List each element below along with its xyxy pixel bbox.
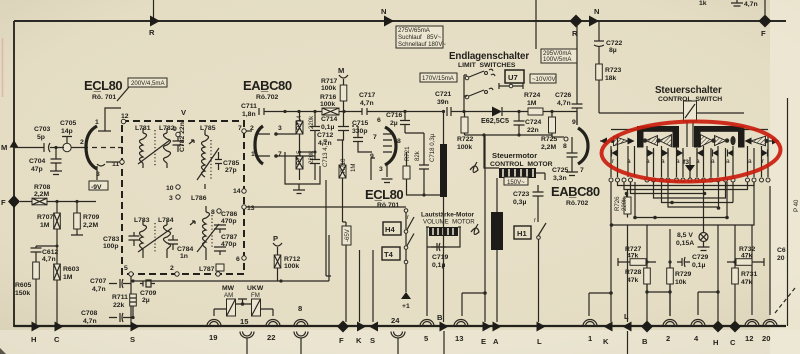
wire E column bbox=[484, 135, 486, 322]
resistor R728 bbox=[644, 268, 651, 284]
tube cathode lead bbox=[97, 164, 105, 180]
svg-text:C724: C724 bbox=[525, 119, 541, 126]
wire R707 to C612 branch bbox=[36, 229, 57, 264]
wire K column bbox=[359, 250, 361, 322]
svg-text:47p: 47p bbox=[31, 166, 43, 173]
svg-text:C726: C726 bbox=[555, 92, 571, 99]
svg-text:N: N bbox=[594, 7, 599, 16]
terminal 20 bbox=[763, 320, 777, 327]
wire bottom chassis bus bbox=[14, 325, 786, 327]
connector arrow small bbox=[189, 140, 194, 144]
switch arrow far ends bbox=[600, 138, 607, 145]
svg-text:C729: C729 bbox=[692, 254, 708, 261]
tube ECL80 pentode envelope bbox=[385, 127, 396, 165]
wire L column bbox=[538, 239, 540, 322]
svg-text:R709: R709 bbox=[83, 214, 99, 221]
svg-text:5: 5 bbox=[124, 265, 128, 272]
svg-text:2: 2 bbox=[80, 139, 84, 146]
terminal L1 bbox=[537, 322, 546, 332]
svg-text:47k: 47k bbox=[627, 277, 639, 284]
capacitor C785 bbox=[215, 152, 222, 170]
svg-text:FM: FM bbox=[251, 292, 260, 299]
node M terminal left edge bbox=[10, 140, 19, 148]
switch limit lower bbox=[465, 95, 469, 99]
svg-text:7: 7 bbox=[278, 151, 282, 158]
svg-text:2: 2 bbox=[170, 265, 174, 272]
svg-text:8µ: 8µ bbox=[609, 47, 617, 54]
svg-text:R711: R711 bbox=[112, 294, 128, 301]
wire top supply bus bbox=[14, 20, 786, 22]
wire switch common with T-bar bbox=[236, 299, 252, 304]
svg-text:1: 1 bbox=[251, 151, 255, 158]
svg-text:330p: 330p bbox=[352, 128, 368, 135]
svg-text:Rö.702: Rö.702 bbox=[256, 94, 279, 101]
svg-text:18k: 18k bbox=[605, 75, 617, 82]
switch cone far right bbox=[751, 136, 766, 146]
svg-text:LIMIT SWITCHES: LIMIT SWITCHES bbox=[458, 62, 516, 69]
box U7 bbox=[505, 70, 524, 83]
svg-text:R724: R724 bbox=[524, 92, 540, 99]
svg-text:R714: R714 bbox=[296, 115, 303, 130]
wire drop to 295V box bbox=[535, 0, 537, 49]
terminal K2 bbox=[604, 322, 613, 332]
svg-text:7: 7 bbox=[373, 134, 377, 141]
node R arrow top-left bbox=[150, 16, 160, 27]
box 295V/0mA 100V/5mA bbox=[541, 49, 577, 63]
core dotted bbox=[154, 130, 156, 166]
capacitor C703 bbox=[44, 143, 58, 152]
svg-text:1n: 1n bbox=[180, 253, 188, 260]
wire 4 column bbox=[698, 292, 718, 315]
svg-text:C782 22n: C782 22n bbox=[179, 122, 186, 152]
node +1 arrow bbox=[401, 292, 411, 299]
tuning arrow 2 bbox=[138, 228, 172, 252]
svg-text:13: 13 bbox=[455, 334, 463, 343]
capacitor C704 bbox=[50, 148, 62, 175]
svg-text:R731: R731 bbox=[741, 271, 757, 278]
svg-text:3: 3 bbox=[379, 166, 383, 173]
svg-text:S: S bbox=[130, 335, 135, 344]
svg-text:20: 20 bbox=[777, 255, 785, 262]
box -9V bbox=[89, 181, 108, 190]
svg-text:P 40: P 40 bbox=[793, 199, 800, 212]
svg-text:Steuermotor: Steuermotor bbox=[492, 151, 537, 160]
svg-text:R726: R726 bbox=[614, 196, 621, 211]
svg-text:a: a bbox=[711, 158, 715, 165]
svg-text:R728: R728 bbox=[625, 269, 641, 276]
svg-text:B: B bbox=[437, 313, 443, 322]
wire B2 column bbox=[646, 225, 648, 321]
terminal C2 bbox=[729, 321, 741, 333]
svg-text:Schnellauf 180V~: Schnellauf 180V~ bbox=[398, 41, 446, 48]
wire drop to R arrow bbox=[153, 0, 155, 21]
capacitor C709 bbox=[140, 280, 155, 287]
svg-text:1M: 1M bbox=[63, 274, 73, 281]
wire switch chain to +1 bbox=[405, 249, 407, 292]
wire C column bbox=[734, 225, 736, 321]
svg-text:M: M bbox=[1, 143, 7, 152]
svg-text:200V/4,5mA: 200V/4,5mA bbox=[131, 80, 165, 87]
switch cone left pair bbox=[646, 136, 658, 146]
tube diode plates bbox=[258, 134, 270, 156]
switch limit upper bbox=[465, 76, 469, 80]
box 200V/4,5mA bbox=[128, 78, 167, 87]
terminal H bbox=[32, 322, 41, 332]
svg-text:4,7n: 4,7n bbox=[42, 256, 56, 263]
connector symbol bbox=[190, 221, 195, 225]
svg-text:8: 8 bbox=[298, 304, 302, 313]
resistor R715 bbox=[296, 156, 303, 169]
terminal 12 bbox=[745, 320, 759, 327]
node pin 5 bottom bbox=[129, 272, 133, 276]
capacitor 4,7n top edge bbox=[731, 0, 743, 6]
svg-text:EAB̲C80: EAB̲C80 bbox=[243, 78, 292, 93]
svg-text:-65V: -65V bbox=[344, 228, 351, 242]
svg-text:10: 10 bbox=[166, 185, 174, 192]
svg-text:L787: L787 bbox=[199, 266, 215, 273]
svg-text:22: 22 bbox=[267, 333, 275, 342]
node pin 13 bbox=[242, 205, 246, 209]
tuning arrow L781/L782 bbox=[138, 140, 170, 164]
svg-text:C709: C709 bbox=[140, 290, 156, 297]
switch contact lower bbox=[406, 233, 414, 248]
svg-text:R708: R708 bbox=[34, 184, 50, 191]
svg-text:4,7n: 4,7n bbox=[360, 100, 374, 107]
corner mark bottom left bbox=[0, 348, 6, 354]
tube EABC80 right envelope bbox=[578, 128, 588, 164]
svg-text:R718: R718 bbox=[340, 158, 347, 173]
switch bar left bbox=[637, 126, 679, 132]
svg-text:4,7n: 4,7n bbox=[557, 100, 571, 107]
svg-text:4,7n: 4,7n bbox=[92, 286, 106, 293]
resistor R603 bbox=[54, 264, 61, 280]
inductor L787 bottom coil bbox=[203, 206, 210, 260]
svg-text:UKW: UKW bbox=[247, 285, 264, 292]
svg-text:R729: R729 bbox=[675, 271, 691, 278]
svg-text:Rö. 701: Rö. 701 bbox=[92, 94, 116, 101]
tube ECL80 triode envelope bbox=[86, 126, 97, 169]
svg-text:H1: H1 bbox=[517, 229, 527, 238]
svg-text:12: 12 bbox=[121, 113, 129, 120]
box ~10V/0V bbox=[530, 74, 556, 83]
svg-text:R723: R723 bbox=[605, 67, 621, 74]
svg-text:a: a bbox=[676, 158, 680, 165]
resistor R726 bbox=[624, 197, 631, 214]
wire R605 to H terminal bbox=[35, 279, 37, 326]
svg-text:C786: C786 bbox=[221, 211, 237, 218]
resistor R709 bbox=[76, 202, 78, 214]
node pin 7 on box edge bbox=[242, 129, 246, 133]
svg-text:EAB̲C80: EAB̲C80 bbox=[551, 184, 600, 199]
svg-text:C722: C722 bbox=[606, 40, 622, 47]
svg-text:AM: AM bbox=[224, 292, 233, 299]
terminal 19 bbox=[207, 320, 221, 327]
capacitor C782 bbox=[173, 137, 184, 152]
svg-text:Rö.702: Rö.702 bbox=[566, 200, 589, 207]
svg-text:F: F bbox=[1, 198, 6, 207]
resistor R723 bbox=[596, 64, 603, 80]
svg-text:2,2M: 2,2M bbox=[34, 191, 49, 198]
svg-text:8,5 V: 8,5 V bbox=[677, 232, 693, 239]
svg-text:8: 8 bbox=[563, 143, 567, 150]
wire switch left column bbox=[464, 75, 467, 112]
wire L2 column bbox=[627, 194, 628, 323]
node F terminal left edge bbox=[8, 195, 20, 208]
svg-text:0,3µ: 0,3µ bbox=[513, 199, 526, 206]
svg-text:C6: C6 bbox=[777, 247, 786, 254]
svg-text:B: B bbox=[642, 337, 648, 346]
terminal B2 bbox=[641, 321, 653, 333]
svg-text:+1: +1 bbox=[402, 303, 410, 310]
switch actuator box bbox=[684, 101, 697, 121]
svg-text:C785: C785 bbox=[223, 160, 239, 167]
svg-text:1M: 1M bbox=[350, 164, 357, 172]
svg-text:6: 6 bbox=[236, 256, 240, 263]
terminal 13 bbox=[454, 320, 468, 327]
svg-text:a: a bbox=[726, 158, 730, 165]
wire B-bar column bbox=[443, 197, 445, 200]
wire R603 to C terminal bbox=[56, 280, 58, 326]
wire 2 column bbox=[669, 229, 671, 316]
svg-text:3,3n: 3,3n bbox=[553, 175, 567, 182]
node pin 11 bbox=[120, 160, 124, 164]
capacitor C612 bbox=[31, 246, 42, 262]
svg-text:275V/65mA: 275V/65mA bbox=[398, 27, 431, 34]
svg-text:T4: T4 bbox=[384, 250, 394, 259]
wire nested bracket 6 bbox=[668, 182, 719, 207]
svg-text:10k: 10k bbox=[675, 279, 687, 286]
motor volume body bbox=[429, 227, 458, 236]
svg-text:1,8n: 1,8n bbox=[242, 111, 256, 118]
wire volume motor loop bbox=[427, 227, 460, 316]
terminal 1 bbox=[583, 320, 597, 327]
svg-text:R716: R716 bbox=[320, 94, 336, 101]
artifact pink scan line bbox=[2, 38, 4, 97]
resistor R725 bbox=[549, 117, 556, 133]
node pin 9 bbox=[176, 132, 180, 136]
svg-text:2: 2 bbox=[666, 334, 670, 343]
svg-text:Endlagenschalter: Endlagenschalter bbox=[449, 51, 529, 62]
svg-text:S: S bbox=[370, 336, 375, 345]
svg-text:39n: 39n bbox=[437, 99, 449, 106]
svg-text:a: a bbox=[646, 158, 650, 165]
svg-text:15: 15 bbox=[240, 317, 249, 326]
wire pin3 down and cap bbox=[382, 165, 393, 183]
wire bottom rail y135 bbox=[465, 135, 553, 137]
svg-text:2µ: 2µ bbox=[142, 297, 150, 304]
svg-text:13: 13 bbox=[247, 205, 255, 212]
terminal E bbox=[483, 322, 492, 332]
svg-text:0,15A: 0,15A bbox=[676, 240, 694, 247]
resistor R729 bbox=[667, 268, 674, 284]
switch terminal circles row bbox=[609, 178, 770, 182]
svg-text:C714: C714 bbox=[321, 116, 337, 123]
diode contacts row bbox=[612, 150, 768, 157]
svg-text:24: 24 bbox=[391, 316, 400, 325]
svg-text:82k: 82k bbox=[414, 150, 421, 161]
svg-text:4,7n: 4,7n bbox=[83, 318, 97, 325]
tube grid dashes bbox=[92, 147, 122, 149]
svg-text:2µ: 2µ bbox=[390, 120, 398, 127]
svg-text:3: 3 bbox=[278, 125, 282, 132]
switch pivot line left bbox=[611, 129, 638, 131]
svg-text:19: 19 bbox=[209, 333, 217, 342]
svg-text:R: R bbox=[149, 28, 155, 37]
svg-text:F: F bbox=[339, 336, 344, 345]
wire UKW to terminal 22 bbox=[261, 309, 274, 316]
svg-text:a: a bbox=[627, 158, 631, 165]
svg-text:C717: C717 bbox=[359, 92, 375, 99]
node pin 8 tube bbox=[564, 137, 568, 141]
svg-text:1M: 1M bbox=[40, 222, 50, 229]
svg-text:1k: 1k bbox=[699, 0, 707, 7]
svg-text:C707: C707 bbox=[90, 278, 106, 285]
svg-text:9: 9 bbox=[572, 119, 576, 126]
svg-text:MW: MW bbox=[222, 285, 235, 292]
svg-text:4,7n: 4,7n bbox=[744, 1, 758, 8]
wire F diamond riser bbox=[764, 0, 766, 15]
svg-text:K: K bbox=[356, 336, 362, 345]
wire 12 column bbox=[751, 225, 753, 315]
box H4 bbox=[383, 222, 401, 235]
wire T-bar U7 bbox=[499, 83, 523, 89]
switch actuator drive line bbox=[599, 112, 744, 114]
svg-text:27p: 27p bbox=[225, 167, 237, 174]
svg-text:22k: 22k bbox=[113, 302, 125, 309]
svg-text:C712: C712 bbox=[317, 132, 333, 139]
resistor R721 bbox=[403, 166, 410, 179]
svg-text:100k: 100k bbox=[284, 263, 299, 270]
resistor R605 bbox=[33, 262, 40, 279]
wire nested bracket 3 bbox=[631, 182, 704, 194]
switch contact r upper bbox=[404, 209, 408, 213]
terminal H2 bbox=[712, 321, 724, 333]
tube anode plate and lead bbox=[98, 108, 121, 131]
box -65V rotated bbox=[342, 226, 351, 245]
box H1 bbox=[514, 226, 531, 239]
wire H column bbox=[717, 225, 719, 321]
core dotted 2 bbox=[154, 223, 156, 252]
svg-text:L785: L785 bbox=[200, 125, 216, 132]
svg-text:3: 3 bbox=[96, 171, 100, 178]
capacitor C713 bbox=[310, 152, 320, 180]
svg-text:C713 4,7n: C713 4,7n bbox=[322, 139, 329, 167]
motor symbol curl bbox=[470, 162, 478, 172]
terminal 4 bbox=[691, 320, 705, 327]
capacitor C783 bbox=[129, 232, 140, 246]
wire M line bbox=[14, 147, 44, 149]
svg-text:47k: 47k bbox=[741, 279, 753, 286]
svg-text:2,2M: 2,2M bbox=[83, 222, 98, 229]
svg-text:f3: f3 bbox=[683, 159, 689, 166]
svg-text:C725: C725 bbox=[552, 167, 568, 174]
svg-text:100k: 100k bbox=[457, 144, 472, 151]
svg-text:100V/5mA: 100V/5mA bbox=[543, 56, 572, 63]
svg-text:F: F bbox=[761, 29, 766, 38]
svg-text:Steuerschalter: Steuerschalter bbox=[655, 85, 722, 96]
box 275V/65mA Suchlauf Schnellauf bbox=[396, 26, 443, 48]
capacitor C722 bbox=[594, 38, 604, 64]
svg-text:8: 8 bbox=[397, 138, 401, 145]
wire right border bbox=[787, 98, 789, 326]
resistor R731 bbox=[732, 268, 739, 284]
node junction dot bbox=[54, 146, 57, 149]
capacitor C705 trimmer bbox=[63, 143, 71, 151]
box 150V~ bbox=[504, 177, 528, 185]
wire nested bracket 4 bbox=[654, 182, 726, 198]
wire K switch column bbox=[589, 225, 611, 322]
resistor R716 bbox=[322, 108, 339, 115]
svg-text:C783: C783 bbox=[103, 236, 119, 243]
svg-text:C705: C705 bbox=[60, 120, 76, 127]
svg-text:20: 20 bbox=[762, 334, 770, 343]
svg-text:EC̲L80: EC̲L80 bbox=[84, 78, 122, 93]
wire A column black bar2 bbox=[491, 212, 503, 250]
node R diamond bbox=[570, 15, 583, 28]
wire 20 column bbox=[769, 186, 771, 315]
wire left border bbox=[13, 21, 15, 327]
resistor R722 bbox=[461, 117, 468, 133]
terminal A bbox=[493, 322, 502, 332]
svg-text:9: 9 bbox=[173, 126, 177, 133]
svg-text:R605: R605 bbox=[15, 282, 31, 289]
wire grid node bbox=[276, 134, 315, 156]
capacitor C712 bbox=[310, 112, 320, 153]
svg-text:100p: 100p bbox=[103, 243, 119, 250]
wire nested bracket 2 bbox=[624, 182, 748, 190]
svg-text:C784: C784 bbox=[177, 246, 193, 253]
node N arrow right bbox=[589, 16, 599, 27]
wire lamp feed bbox=[703, 194, 705, 233]
svg-text:-9V: -9V bbox=[91, 184, 102, 191]
wire pin7 box to diode plate bbox=[246, 130, 252, 132]
wire motor leads bbox=[484, 135, 545, 180]
wire long horizontal from pin13 bbox=[246, 206, 406, 208]
wire pin9 to top rail bbox=[576, 112, 578, 126]
svg-text:220k: 220k bbox=[621, 197, 628, 211]
svg-text:C723: C723 bbox=[513, 191, 529, 198]
svg-text:K: K bbox=[603, 337, 609, 346]
switch pivot line right bbox=[741, 129, 768, 131]
svg-text:Suchlauf 85V~: Suchlauf 85V~ bbox=[398, 34, 442, 41]
wire pin9 column down bbox=[371, 158, 375, 180]
wire F line bbox=[20, 201, 96, 203]
svg-text:R721: R721 bbox=[404, 146, 411, 161]
svg-text:100k: 100k bbox=[321, 85, 336, 92]
box 170V/15mA bbox=[420, 73, 457, 82]
svg-text:C715: C715 bbox=[352, 120, 368, 127]
resistor R712 bbox=[274, 255, 281, 268]
wire signal bus y112 bbox=[285, 111, 381, 113]
wire P line y281 bbox=[133, 235, 329, 281]
volume motor bar bbox=[440, 144, 447, 197]
wire pin5 column down to S bbox=[130, 276, 132, 326]
svg-text:C711: C711 bbox=[241, 103, 257, 110]
svg-text:r: r bbox=[534, 217, 536, 224]
motor Steuermotor body bbox=[499, 168, 536, 178]
wire to tube grid bbox=[58, 147, 88, 149]
svg-text:22n: 22n bbox=[527, 127, 539, 134]
svg-text:150k: 150k bbox=[15, 290, 30, 297]
node N arrow mid bbox=[384, 16, 394, 27]
wire nested bracket 7 bbox=[635, 182, 727, 218]
resistor R717 bbox=[340, 85, 347, 101]
wire N column bbox=[598, 21, 600, 38]
node pin L787 bottom bbox=[216, 272, 220, 276]
svg-text:a: a bbox=[696, 158, 700, 165]
svg-text:U7: U7 bbox=[508, 73, 518, 82]
svg-text:H4: H4 bbox=[385, 225, 395, 234]
